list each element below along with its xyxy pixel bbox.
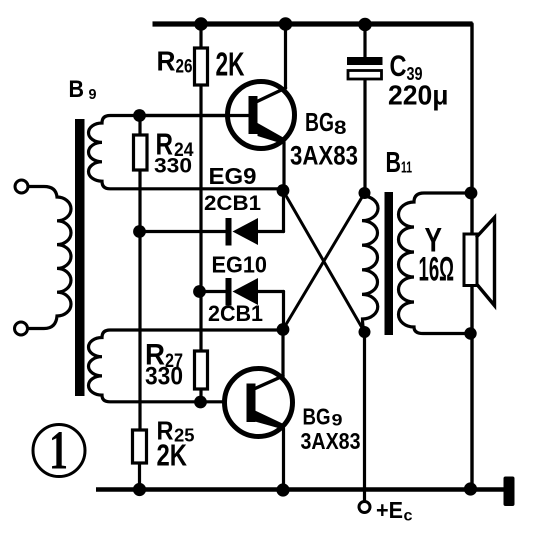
svg-text:BG: BG bbox=[305, 107, 334, 137]
svg-text:c: c bbox=[404, 508, 413, 525]
svg-text:+E: +E bbox=[376, 497, 403, 523]
svg-text:3AX83: 3AX83 bbox=[301, 428, 361, 454]
svg-text:330: 330 bbox=[154, 154, 192, 178]
svg-text:1: 1 bbox=[49, 420, 68, 481]
svg-text:9: 9 bbox=[332, 411, 343, 430]
svg-text:2CB1: 2CB1 bbox=[208, 301, 263, 326]
svg-text:BG: BG bbox=[303, 404, 331, 430]
svg-text:EG9: EG9 bbox=[209, 163, 257, 189]
svg-text:EG10: EG10 bbox=[212, 252, 268, 278]
svg-text:9: 9 bbox=[89, 86, 97, 103]
svg-text:B: B bbox=[69, 77, 85, 103]
svg-text:2K: 2K bbox=[216, 46, 245, 83]
svg-text:B: B bbox=[386, 147, 402, 179]
svg-text:26: 26 bbox=[176, 57, 193, 78]
svg-text:2K: 2K bbox=[157, 438, 188, 473]
svg-text:C: C bbox=[390, 50, 407, 83]
svg-text:8: 8 bbox=[334, 118, 347, 139]
svg-text:R: R bbox=[157, 46, 176, 77]
svg-text:11: 11 bbox=[401, 160, 412, 177]
svg-text:16Ω: 16Ω bbox=[419, 251, 455, 289]
svg-text:220μ: 220μ bbox=[388, 80, 449, 111]
svg-text:330: 330 bbox=[145, 363, 183, 391]
svg-text:2CB1: 2CB1 bbox=[204, 192, 261, 215]
svg-text:3AX83: 3AX83 bbox=[290, 141, 358, 171]
